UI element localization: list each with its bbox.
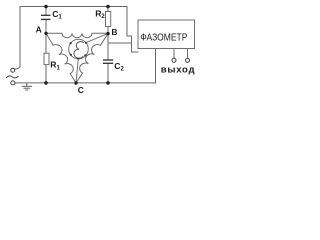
ground xyxy=(22,83,32,90)
svg-text:C: C xyxy=(78,85,84,95)
junction top C1 xyxy=(44,5,48,9)
node A xyxy=(44,32,47,35)
wire C2 top lead xyxy=(107,34,109,60)
AC tilde xyxy=(6,76,18,78)
phase meter box U1 xyxy=(138,20,195,49)
wire rotor to node B xyxy=(86,34,107,43)
winding A-C (stator) xyxy=(46,33,76,83)
svg-text:выход: выход xyxy=(161,65,195,76)
junction bottom C2 xyxy=(106,81,110,85)
wire R1 top lead xyxy=(45,33,47,53)
output terminal 2 xyxy=(186,49,190,63)
winding B-C (stator) xyxy=(76,34,108,83)
wire R1 bottom lead xyxy=(45,65,47,83)
resistor R2 xyxy=(106,12,111,27)
wire hook to input terminal xyxy=(15,66,20,69)
winding A-B (stator) xyxy=(46,33,108,37)
capacitor C1 xyxy=(41,15,51,19)
resistor R1 xyxy=(44,53,49,64)
wire top rail xyxy=(20,6,127,8)
junction bottom R1 xyxy=(44,81,48,85)
svg-text:B: B xyxy=(111,27,117,37)
wire R2 top lead xyxy=(107,7,109,12)
wire bottom rail xyxy=(15,82,156,84)
svg-text:ФАЗОМЕТР: ФАЗОМЕТР xyxy=(140,32,187,43)
wire R2 bottom lead xyxy=(107,27,109,34)
capacitor C2 xyxy=(103,60,113,63)
wire B tap to phase meter xyxy=(108,42,132,44)
node B xyxy=(106,32,109,35)
wire rotor to node C xyxy=(76,59,78,83)
rotor (phase regulator) xyxy=(69,39,89,60)
junction top R2 xyxy=(106,5,110,9)
wire left frame xyxy=(19,7,21,68)
wire right frame xyxy=(127,7,138,53)
output terminal 1 xyxy=(172,49,176,63)
svg-text:A: A xyxy=(36,24,42,34)
wire C2 bottom lead xyxy=(107,63,109,83)
node C xyxy=(74,81,77,84)
input terminal top xyxy=(11,68,15,72)
input terminal bottom xyxy=(11,81,15,85)
wire C1 bottom lead xyxy=(45,20,47,34)
wire C1 top lead xyxy=(45,7,47,16)
wire phasemeter terminal to bottom rail xyxy=(155,49,157,83)
